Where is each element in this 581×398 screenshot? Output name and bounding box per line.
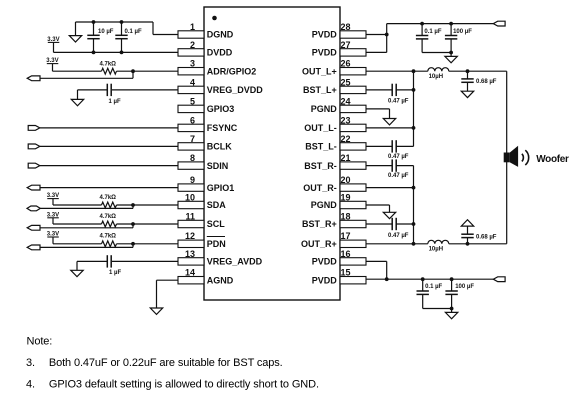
svg-text:FSYNC: FSYNC: [207, 123, 238, 133]
svg-text:SDIN: SDIN: [207, 161, 229, 171]
svg-text:PVDD: PVDD: [312, 257, 338, 267]
svg-text:PVDD: PVDD: [312, 30, 338, 40]
svg-text:6: 6: [190, 115, 195, 125]
svg-text:8: 8: [190, 153, 195, 163]
svg-text:25: 25: [341, 77, 351, 87]
svg-text:23: 23: [341, 115, 351, 125]
svg-text:19: 19: [341, 192, 351, 202]
svg-text:24: 24: [341, 96, 351, 106]
svg-text:28: 28: [341, 22, 351, 32]
svg-text:12: 12: [185, 231, 195, 241]
svg-text:GPIO3 default setting is allow: GPIO3 default setting is allowed to dire…: [49, 378, 319, 390]
svg-text:10µH: 10µH: [429, 74, 443, 80]
svg-text:5: 5: [190, 96, 195, 106]
svg-text:27: 27: [341, 40, 351, 50]
svg-text:15: 15: [341, 268, 351, 278]
svg-text:BST_L+: BST_L+: [303, 85, 337, 95]
svg-text:Woofer: Woofer: [536, 154, 569, 165]
svg-text:GPIO1: GPIO1: [207, 183, 235, 193]
svg-text:4.7kΩ: 4.7kΩ: [100, 195, 117, 201]
svg-text:OUT_L-: OUT_L-: [304, 123, 337, 133]
svg-text:4.: 4.: [26, 378, 35, 390]
svg-text:22: 22: [341, 134, 351, 144]
svg-text:DGND: DGND: [207, 30, 234, 40]
svg-text:OUT_R-: OUT_R-: [303, 183, 337, 193]
svg-text:100 µF: 100 µF: [453, 29, 472, 35]
svg-text:GPIO3: GPIO3: [207, 104, 235, 114]
svg-text:Note:: Note:: [27, 335, 53, 347]
svg-text:PGND: PGND: [311, 104, 338, 114]
svg-text:11: 11: [185, 211, 195, 221]
svg-text:BST_R+: BST_R+: [302, 219, 337, 229]
svg-text:PGND: PGND: [311, 200, 338, 210]
svg-text:1: 1: [190, 22, 195, 32]
svg-text:PVDD: PVDD: [312, 275, 338, 285]
svg-text:0.1 µF: 0.1 µF: [424, 29, 441, 35]
svg-text:0.1 µF: 0.1 µF: [125, 29, 142, 35]
svg-text:SDA: SDA: [207, 200, 227, 210]
svg-text:7: 7: [190, 134, 195, 144]
svg-text:3.: 3.: [26, 357, 35, 369]
svg-text:VREG_AVDD: VREG_AVDD: [207, 257, 263, 267]
svg-text:0.47 µF: 0.47 µF: [388, 98, 409, 104]
svg-text:OUT_L+: OUT_L+: [302, 66, 337, 76]
svg-text:ADR/GPIO2: ADR/GPIO2: [207, 66, 257, 76]
svg-text:18: 18: [341, 211, 351, 221]
svg-text:13: 13: [185, 249, 195, 259]
svg-text:1 µF: 1 µF: [109, 99, 121, 105]
svg-text:DVDD: DVDD: [207, 48, 233, 58]
svg-text:0.47 µF: 0.47 µF: [388, 154, 409, 160]
svg-text:26: 26: [341, 59, 351, 69]
svg-text:0.1 µF: 0.1 µF: [425, 284, 442, 290]
svg-text:VREG_DVDD: VREG_DVDD: [207, 85, 264, 95]
svg-text:3: 3: [190, 59, 195, 69]
svg-text:4.7kΩ: 4.7kΩ: [100, 61, 117, 67]
svg-text:20: 20: [341, 175, 351, 185]
svg-text:9: 9: [190, 175, 195, 185]
svg-text:SCL: SCL: [207, 219, 226, 229]
svg-text:16: 16: [341, 249, 351, 259]
svg-text:2: 2: [190, 40, 195, 50]
svg-text:OUT_R+: OUT_R+: [301, 239, 337, 249]
svg-text:4.7kΩ: 4.7kΩ: [100, 214, 117, 220]
svg-text:BST_R-: BST_R-: [304, 161, 337, 171]
svg-text:10µH: 10µH: [429, 247, 443, 253]
svg-text:PVDD: PVDD: [312, 48, 338, 58]
svg-text:14: 14: [185, 268, 195, 278]
svg-text:BCLK: BCLK: [207, 142, 232, 152]
svg-text:21: 21: [341, 153, 351, 163]
svg-text:17: 17: [341, 231, 351, 241]
svg-text:4: 4: [190, 77, 195, 87]
svg-text:PDN: PDN: [207, 239, 226, 249]
svg-text:BST_L-: BST_L-: [305, 142, 337, 152]
svg-text:1 µF: 1 µF: [109, 270, 121, 276]
svg-text:0.68 µF: 0.68 µF: [476, 235, 497, 241]
svg-text:Both 0.47uF or 0.22uF are suit: Both 0.47uF or 0.22uF are suitable for B…: [49, 357, 283, 369]
svg-text:0.47 µF: 0.47 µF: [388, 173, 409, 179]
svg-text:100 µF: 100 µF: [455, 284, 474, 290]
svg-text:10: 10: [185, 192, 195, 202]
svg-text:10 µF: 10 µF: [98, 29, 114, 35]
svg-text:0.47 µF: 0.47 µF: [388, 233, 409, 239]
svg-text:4.7kΩ: 4.7kΩ: [100, 233, 117, 239]
svg-text:0.68 µF: 0.68 µF: [476, 79, 497, 85]
svg-text:AGND: AGND: [207, 275, 234, 285]
